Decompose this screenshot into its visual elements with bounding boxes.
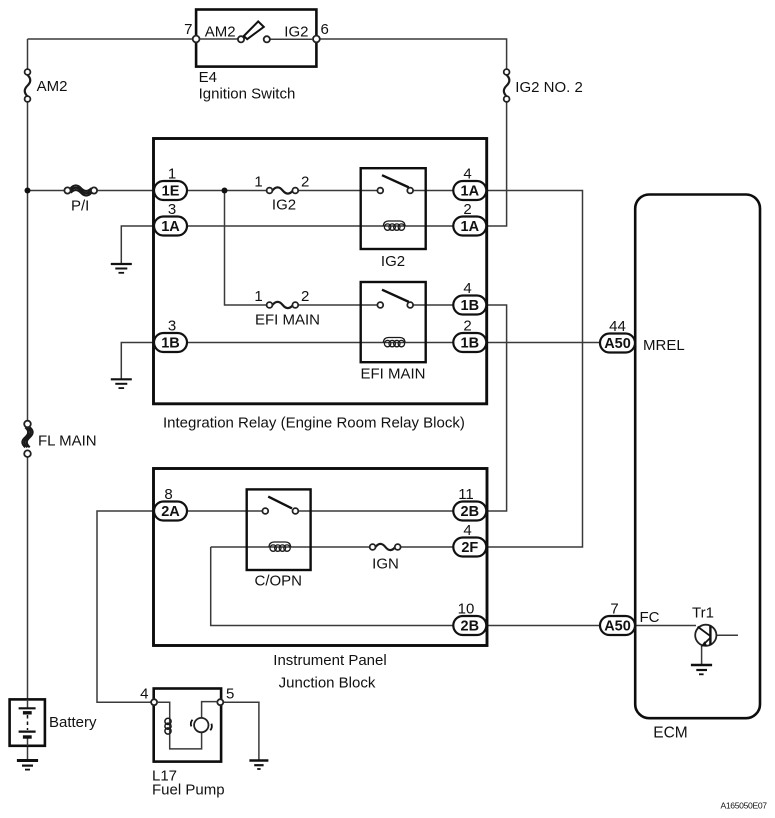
- terminal 2F pin 4: [453, 538, 486, 557]
- svg-text:E4: E4: [199, 69, 217, 86]
- svg-text:4: 4: [463, 522, 471, 539]
- relay U3 C/OPN contact: [262, 497, 298, 514]
- wire: fuel pump pin 5 to ground: [223, 702, 259, 760]
- wire: terminal 2A pin 8 to fuel pump pin 4: [97, 511, 155, 702]
- svg-text:IG2: IG2: [272, 196, 296, 213]
- svg-text:EFI MAIN: EFI MAIN: [255, 312, 320, 329]
- svg-text:Ignition Switch: Ignition Switch: [199, 86, 296, 103]
- svg-text:Junction Block: Junction Block: [279, 675, 376, 692]
- terminal 2B pin 10: [453, 616, 486, 635]
- svg-text:1B: 1B: [461, 298, 480, 314]
- svg-text:8: 8: [164, 486, 172, 503]
- wire: fuse IG2 NO. 2 to terminal 1A pin 2: [487, 102, 507, 226]
- wire: ECM terminal A50 pin 7 to transistor Tr1 base: [635, 625, 696, 627]
- fuse EFI MAIN: [267, 302, 299, 308]
- relay U1 IG2 coil: [383, 221, 405, 230]
- terminal 2A pin 8: [154, 502, 187, 521]
- svg-text:Instrument Panel: Instrument Panel: [273, 652, 386, 669]
- svg-text:MREL: MREL: [643, 337, 685, 354]
- wire: terminal 1E to fuse IG2: [187, 190, 267, 192]
- svg-text:Integration Relay (Engine Room: Integration Relay (Engine Room Relay Blo…: [163, 414, 465, 431]
- svg-text:IG2 NO. 2: IG2 NO. 2: [515, 79, 583, 96]
- wire: terminal 1A pin 3 ground branch: [121, 226, 154, 264]
- svg-text:FL MAIN: FL MAIN: [38, 433, 97, 450]
- svg-text:10: 10: [458, 600, 475, 617]
- svg-text:2: 2: [463, 317, 471, 334]
- fuel pump L17 internals: pins, coil and motor: [151, 699, 223, 749]
- fusible link P/I: [64, 185, 97, 195]
- battery box: [10, 699, 45, 745]
- block: Instrument Panel Junction Block: [154, 469, 488, 646]
- fuse AM2: [25, 69, 31, 102]
- relay U1 IG2 contact: [377, 175, 413, 193]
- svg-text:44: 44: [609, 318, 626, 335]
- terminal 1B pin 4: [453, 296, 486, 315]
- svg-text:2B: 2B: [461, 619, 480, 635]
- svg-text:5: 5: [226, 686, 234, 703]
- wire: left rail below fuse AM2: [27, 102, 29, 421]
- svg-text:6: 6: [321, 21, 329, 38]
- svg-text:A50: A50: [604, 336, 631, 352]
- fuse IGN: [370, 544, 401, 550]
- svg-text:P/I: P/I: [71, 197, 89, 214]
- svg-text:A50: A50: [604, 619, 631, 635]
- svg-text:C/OPN: C/OPN: [255, 573, 303, 590]
- node: junction of rail and P/I branch: [25, 188, 31, 194]
- wire: coil row into relay C/OPN: [211, 546, 370, 548]
- svg-text:Battery: Battery: [49, 714, 97, 731]
- wire: terminal 1B pin 2 to ECM terminal A50 pin 44: [487, 342, 601, 344]
- terminal 1B pin 3: [154, 333, 187, 352]
- svg-text:2: 2: [463, 201, 471, 218]
- wire: relay EFI MAIN contact to terminal 1B pin 4: [413, 304, 454, 306]
- svg-text:IG2: IG2: [381, 253, 405, 270]
- terminal 1A pin 4: [453, 181, 486, 200]
- svg-text:1E: 1E: [162, 184, 180, 200]
- transistor Tr1: [695, 625, 716, 647]
- svg-text:IG2: IG2: [284, 23, 308, 40]
- svg-text:AM2: AM2: [205, 23, 236, 40]
- node: junction of IG2 and EFI MAIN branch: [222, 188, 228, 194]
- svg-text:7: 7: [184, 21, 192, 38]
- fusible link FL MAIN: [22, 421, 32, 457]
- switch E4 ignition switch box: [196, 10, 316, 67]
- terminal 1B pin 2: [453, 333, 486, 352]
- relay U2 EFI MAIN contact: [377, 290, 413, 308]
- wire: transistor Tr1 emitter to ground: [701, 646, 703, 665]
- svg-text:FC: FC: [640, 609, 660, 626]
- wire: coil row branch down to terminal 2B pin 10: [211, 547, 454, 626]
- svg-text:1A: 1A: [461, 219, 480, 235]
- svg-text:AM2: AM2: [37, 78, 68, 95]
- svg-text:4: 4: [463, 280, 471, 297]
- terminal 1A pin 2: [453, 217, 486, 236]
- svg-text:3: 3: [168, 317, 176, 334]
- svg-text:1B: 1B: [461, 336, 480, 352]
- svg-text:1: 1: [254, 288, 262, 305]
- wire: terminal 1A pin 3 to relay IG2 coil row: [187, 225, 454, 227]
- wire: terminal 2B pin 10 to ECM terminal A50 pin 7: [487, 625, 601, 627]
- ground: terminal 1B pin 3: [111, 379, 132, 388]
- switch E4 contacts and lever: [193, 21, 320, 42]
- terminal 1A pin 3: [154, 217, 187, 236]
- svg-text:2A: 2A: [161, 504, 180, 520]
- ECM terminal A50 pin 44: [600, 334, 635, 353]
- wire: battery negative to ground: [27, 746, 29, 760]
- ground: battery: [17, 761, 38, 770]
- terminal 1E pin 1: [154, 181, 187, 200]
- svg-text:A165050E07: A165050E07: [721, 801, 768, 811]
- wire: terminal 1B pin 3 to relay EFI MAIN coil row: [187, 342, 454, 344]
- svg-text:2F: 2F: [461, 540, 478, 556]
- ECM terminal A50 pin 7: [600, 616, 635, 635]
- svg-text:1: 1: [168, 165, 176, 182]
- svg-text:4: 4: [140, 686, 148, 703]
- svg-text:4: 4: [463, 165, 471, 182]
- wire: relay C/OPN contact to terminal 2B pin 11: [298, 510, 453, 512]
- svg-text:2: 2: [301, 288, 309, 305]
- wire: relay IG2 contact to terminal 1A pin 4: [413, 190, 454, 192]
- svg-text:Tr1: Tr1: [692, 605, 714, 622]
- wire: left rail top segment: [27, 39, 29, 69]
- wire: junction branch down to fuse EFI MAIN: [225, 191, 267, 306]
- wire: left rail below fusible link FL MAIN to battery: [27, 457, 29, 699]
- svg-text:2B: 2B: [461, 504, 480, 520]
- relay U3 C/OPN coil: [269, 542, 291, 551]
- fuse IG2: [267, 187, 299, 193]
- component L17 fuel pump box: [154, 689, 221, 762]
- battery internal plates: [19, 699, 36, 745]
- svg-text:7: 7: [610, 600, 618, 617]
- wire: terminal 2A pin 8 to relay C/OPN contact: [187, 510, 263, 512]
- wire: fuse IGN to terminal 2F pin 4: [400, 546, 453, 548]
- svg-text:Fuel Pump: Fuel Pump: [152, 781, 225, 798]
- svg-text:EFI MAIN: EFI MAIN: [360, 365, 425, 382]
- svg-text:3: 3: [168, 201, 176, 218]
- svg-text:1A: 1A: [161, 219, 180, 235]
- relay U3 C/OPN box: [247, 489, 311, 570]
- relay U2 EFI MAIN coil: [383, 338, 405, 347]
- svg-text:11: 11: [458, 486, 474, 503]
- svg-text:2: 2: [301, 173, 309, 190]
- ground: transistor Tr1 emitter: [691, 665, 712, 674]
- wire: battery feed to ignition switch pin 7: [28, 38, 197, 40]
- wire: terminal 1B pin 4 to terminal 2B pin 11: [487, 305, 507, 511]
- fuse IG2 NO. 2: [504, 69, 510, 102]
- wire: rail to fusible link P/I: [28, 190, 65, 192]
- wire: fusible link P/I to terminal 1E: [97, 190, 155, 192]
- ECM box: [635, 195, 760, 719]
- ground: fuel pump pin 5: [249, 761, 268, 770]
- wire: terminal 1B pin 3 ground branch: [121, 343, 154, 380]
- wire: transistor Tr1 collector: [711, 634, 738, 636]
- svg-text:ECM: ECM: [653, 724, 687, 741]
- block: Integration Relay (Engine Room Relay Block): [154, 139, 487, 404]
- svg-text:1: 1: [254, 173, 262, 190]
- wire: ignition switch pin 6 to fuse IG2 NO. 2: [316, 39, 506, 69]
- wire: fuse EFI MAIN to relay EFI MAIN contact: [298, 304, 377, 306]
- wire: terminal 1A pin 4 to terminal 2F pin 4: [487, 191, 583, 548]
- svg-text:1B: 1B: [161, 336, 180, 352]
- terminal 2B pin 11: [453, 502, 486, 521]
- svg-text:IGN: IGN: [372, 555, 399, 572]
- relay U1 IG2 box: [361, 168, 426, 249]
- ground: terminal 1A pin 3: [111, 264, 132, 273]
- wire: fuse IG2 to relay IG2 contact: [298, 190, 377, 192]
- relay U2 EFI MAIN box: [361, 282, 426, 362]
- svg-text:1A: 1A: [461, 184, 480, 200]
